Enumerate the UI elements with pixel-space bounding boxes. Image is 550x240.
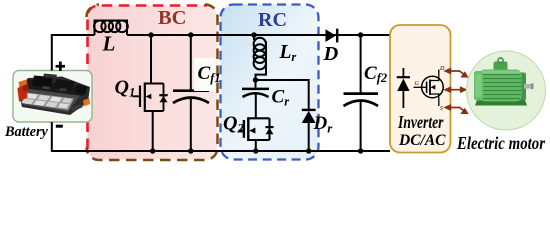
wire Q1 drain from top rail — [150, 35, 152, 84]
transistor Q1 — [133, 83, 168, 113]
motor circle — [467, 51, 546, 130]
battery plus sign — [56, 62, 65, 71]
svg-text:G: G — [415, 81, 420, 87]
wire node to Dr branch — [256, 80, 309, 110]
svg-text:D: D — [323, 43, 339, 65]
battery pack image — [18, 74, 91, 116]
converter outer dashed border (olive, right and bottom) — [87, 5, 218, 161]
diode D — [326, 29, 338, 43]
battery minus sign — [56, 125, 63, 128]
svg-text:RC: RC — [258, 9, 287, 31]
inductor Lr — [254, 35, 266, 80]
wire Q2 source to bottom rail — [255, 140, 257, 151]
wire Cr to Q2 — [255, 94, 257, 119]
svg-text:Inverter: Inverter — [397, 112, 443, 132]
capacitor Cf1 — [173, 91, 209, 103]
junction top rail Cf1 — [188, 32, 193, 37]
junction top rail Cf2 — [358, 32, 363, 37]
svg-text:Battery: Battery — [4, 124, 49, 140]
svg-text:L: L — [102, 31, 116, 55]
inverter mosfet U1 — [414, 66, 446, 112]
junction bottom rail Cf2 — [358, 148, 363, 153]
wire node to Cr — [255, 80, 257, 88]
label Cf1 — [194, 58, 216, 91]
wire bottom rail — [52, 122, 390, 151]
junction bottom rail Dr — [306, 148, 311, 153]
transistor Q2 — [239, 117, 274, 141]
svg-text:Electric motor: Electric motor — [456, 133, 546, 153]
BC boost converter box fill — [88, 6, 218, 160]
wire Cf2 top — [360, 35, 362, 92]
wire Cf2 bottom — [360, 101, 362, 151]
junction bottom rail Cf1 — [188, 148, 193, 153]
inverter diode — [397, 68, 410, 108]
wire Q1 source to bottom rail — [152, 111, 154, 151]
phase arrow C — [445, 105, 468, 114]
wire Cf1 top — [190, 35, 192, 90]
wire battery positive to inductor — [52, 35, 95, 71]
wire Cf1 bottom — [190, 98, 192, 151]
diode Dr — [302, 110, 316, 151]
junction bottom rail Q1 — [150, 148, 155, 153]
electric motor drawing — [474, 58, 534, 106]
inverter box — [390, 25, 451, 153]
phase arrow B — [445, 87, 467, 92]
junction top rail Lr — [251, 32, 256, 37]
battery box — [13, 71, 92, 123]
BC box red dashed border (top and left) — [88, 6, 208, 150]
svg-text:Cf2: Cf2 — [364, 63, 387, 85]
svg-text:BC: BC — [158, 7, 186, 29]
junction top rail Q1 — [148, 32, 153, 37]
RC resonant cell box — [221, 5, 319, 160]
junction node Lr-Cr-Dr — [253, 77, 258, 82]
inductor L — [94, 21, 128, 36]
svg-text:DC/AC: DC/AC — [398, 132, 446, 149]
capacitor Cr — [242, 89, 269, 97]
phase arrow A — [445, 68, 468, 77]
capacitor Cf2 — [344, 94, 379, 106]
junction bottom rail Q2 — [253, 148, 258, 153]
svg-text:Dr: Dr — [313, 113, 334, 136]
wire top rail — [127, 34, 390, 36]
